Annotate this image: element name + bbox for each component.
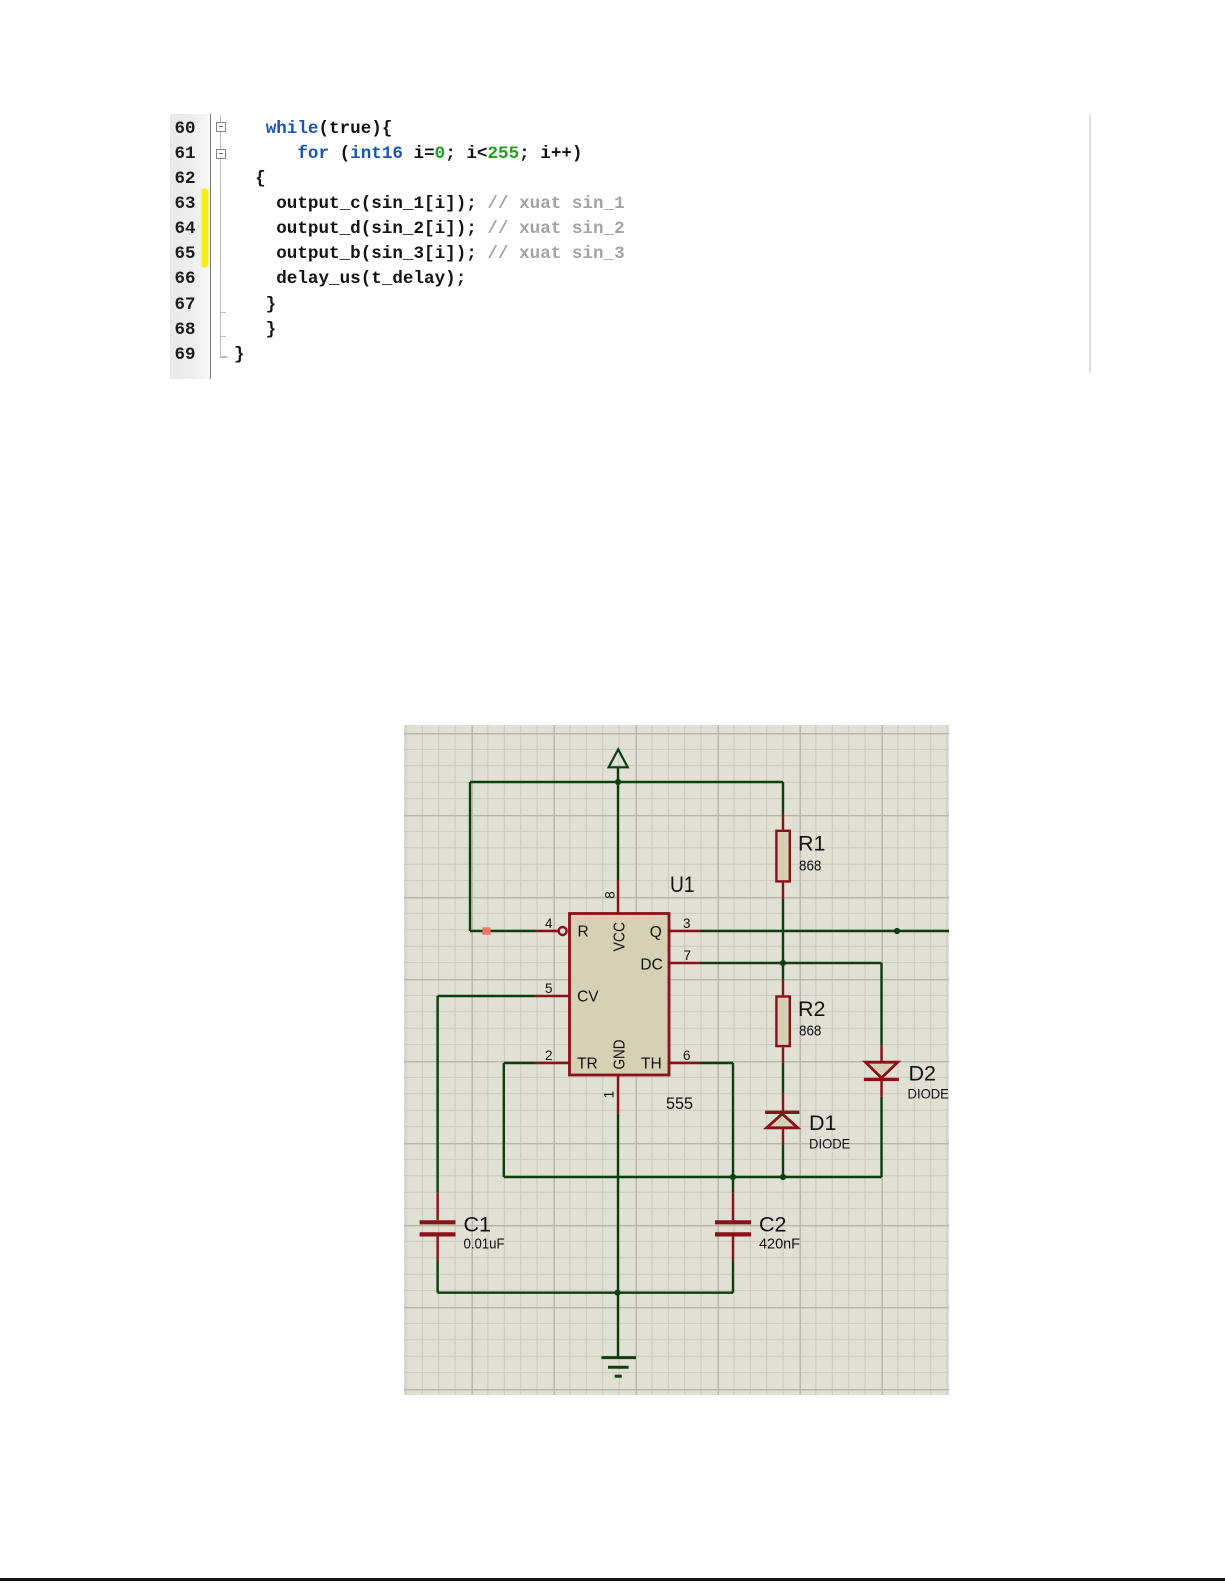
schematic — [404, 725, 949, 1395]
resistor R1 — [776, 831, 789, 882]
number/code separator — [210, 114, 212, 380]
fold boxes — [216, 122, 226, 132]
pin 4 inversion bubble — [559, 927, 567, 935]
svg-text:420nF: 420nF — [759, 1236, 800, 1253]
wire R2 to D1 — [782, 1063, 784, 1094]
svg-text:TH: TH — [641, 1055, 662, 1072]
D2 bottom pin — [880, 1080, 882, 1097]
node origin marker — [482, 927, 490, 935]
R2 bottom pin — [782, 1047, 784, 1062]
wire top horizontal — [470, 781, 783, 783]
pin 5 stub — [535, 995, 569, 997]
pin 3 stub — [669, 930, 700, 932]
svg-text:7: 7 — [684, 948, 692, 963]
wire left vertical — [469, 782, 471, 931]
wire R1 top — [782, 782, 784, 814]
svg-text:1: 1 — [602, 1091, 617, 1099]
wire GND pin to ground — [617, 1113, 619, 1357]
pin 4 stub — [535, 930, 559, 932]
wire DC horizontal — [700, 962, 882, 964]
junction DC node — [780, 960, 786, 966]
line numbers — [175, 117, 196, 142]
resistor R2 — [776, 997, 789, 1047]
wire TR horizontal — [504, 1062, 535, 1064]
svg-text:D2: D2 — [909, 1062, 936, 1086]
pin 6 stub — [669, 1062, 700, 1064]
svg-text:D1: D1 — [809, 1111, 836, 1135]
svg-text:4: 4 — [545, 916, 553, 931]
capacitor C1 pins — [436, 1192, 438, 1261]
junction D1 bus — [780, 1174, 786, 1180]
code lines — [234, 117, 392, 142]
power rail stem — [617, 767, 619, 782]
wire Q output — [700, 930, 949, 932]
D1 anode pin — [782, 1093, 784, 1112]
capacitor C2 pins — [732, 1192, 734, 1261]
wire CV to C1 — [436, 996, 438, 1192]
grid background — [404, 725, 949, 1395]
wire CV horizontal — [438, 995, 535, 997]
svg-text:R1: R1 — [798, 832, 825, 856]
svg-text:R2: R2 — [798, 997, 825, 1021]
wire D1 to bus — [782, 1144, 784, 1177]
svg-text:C1: C1 — [464, 1213, 491, 1237]
svg-text:868: 868 — [799, 858, 821, 875]
R2 top pin — [782, 980, 784, 996]
svg-text:Q: Q — [650, 924, 662, 941]
junction ground wire — [614, 1290, 620, 1296]
svg-text:CV: CV — [577, 989, 599, 1006]
diode D2 — [864, 1062, 899, 1079]
capacitor C2 — [715, 1222, 751, 1234]
svg-text:555: 555 — [666, 1095, 693, 1113]
wire D2 to bus — [880, 1097, 882, 1177]
capacitor C1 — [420, 1222, 456, 1234]
wire vcc pin 8 — [617, 782, 619, 881]
wire ground bottom — [438, 1291, 733, 1293]
svg-text:2: 2 — [545, 1048, 553, 1063]
wire TH vertical — [732, 1063, 734, 1177]
pin 8 stub — [617, 881, 619, 914]
wire TR vertical — [503, 1063, 505, 1177]
wire DC to D2 — [880, 963, 882, 1046]
ground — [601, 1358, 636, 1377]
svg-text:0.01uF: 0.01uF — [464, 1236, 505, 1253]
power symbol VCC — [609, 749, 628, 767]
diode D1 — [765, 1112, 799, 1128]
svg-text:GND: GND — [612, 1040, 629, 1070]
pin 7 stub — [669, 962, 700, 964]
svg-text:DIODE: DIODE — [908, 1086, 949, 1102]
D2 top pin — [880, 1046, 882, 1063]
yellow modified-lines bar — [202, 189, 208, 267]
svg-text:DC: DC — [640, 957, 662, 974]
svg-text:U1: U1 — [670, 872, 695, 897]
wire R1 bottom to DC node — [782, 899, 784, 963]
pin 2 stub — [535, 1062, 569, 1064]
svg-text:TR: TR — [577, 1055, 598, 1072]
svg-text:868: 868 — [799, 1023, 821, 1040]
wire to pin 4 — [470, 930, 535, 932]
svg-text:VCC: VCC — [612, 922, 629, 951]
junction VCC rail — [615, 779, 621, 785]
op-amp U1 body (555 timer) — [570, 914, 670, 1076]
junction Q wire — [894, 928, 900, 934]
svg-text:8: 8 — [603, 891, 618, 899]
bottom page rule — [0, 1578, 1225, 1580]
wire C2 bottom — [732, 1261, 734, 1293]
svg-text:5: 5 — [545, 981, 553, 996]
wire TH horizontal — [700, 1062, 733, 1064]
svg-text:3: 3 — [683, 916, 691, 931]
wire C1 bottom — [436, 1261, 438, 1293]
D1 bottom pin — [782, 1128, 784, 1144]
svg-text:R: R — [578, 924, 589, 941]
svg-text:C2: C2 — [759, 1213, 786, 1237]
svg-text:DIODE: DIODE — [809, 1136, 850, 1152]
fold guide line — [220, 115, 221, 358]
faint editor right border — [1089, 114, 1091, 372]
R1 bottom pin — [782, 883, 784, 899]
wire bus to C2 — [732, 1177, 734, 1192]
code editor line-number column — [170, 114, 211, 380]
junction TH bus — [730, 1174, 736, 1180]
wire bottom bus — [504, 1176, 882, 1178]
wire node to R2 — [782, 963, 784, 980]
R1 top pin — [782, 814, 784, 830]
pin 1 stub — [617, 1076, 619, 1114]
svg-text:6: 6 — [683, 1048, 691, 1063]
